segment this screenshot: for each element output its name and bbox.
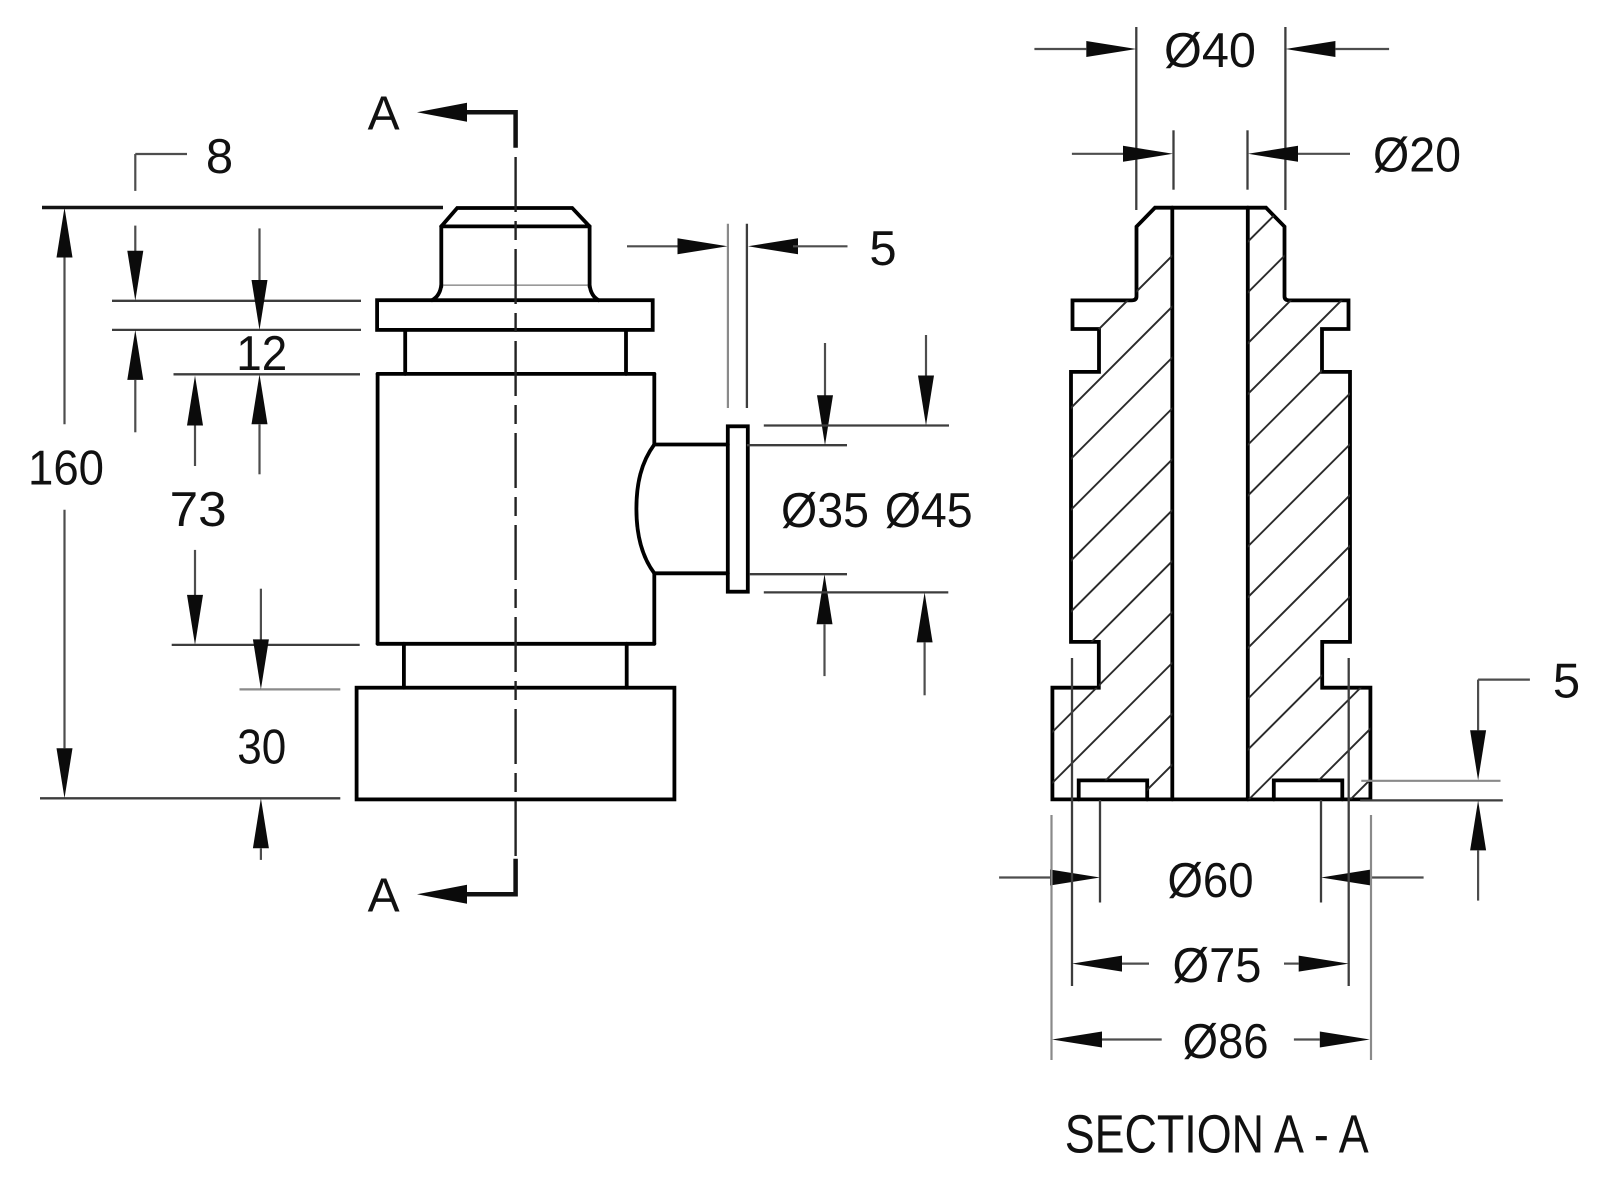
front view: main body: [378, 372, 655, 376]
section view bore (D20 hole) edges: [1170, 208, 1174, 800]
dimension 5 (port flange thickness): [727, 224, 729, 408]
svg-text:12: 12: [236, 327, 287, 381]
extension line: part top (160 datum): [42, 206, 443, 209]
svg-text:Ø45: Ø45: [885, 484, 973, 538]
svg-text:8: 8: [206, 130, 233, 184]
dimension 8: [135, 153, 187, 155]
dimension 73: [187, 376, 203, 426]
front view: lower neck: [402, 644, 406, 688]
dimension 160: [57, 208, 73, 258]
dimension 30: [260, 589, 262, 640]
front view: port end flange disc (D45 x 5): [728, 426, 748, 591]
svg-text:Ø86: Ø86: [1183, 1015, 1269, 1069]
svg-text:5: 5: [1553, 654, 1580, 708]
dimension D45: [764, 424, 949, 426]
dimension D35: [747, 444, 847, 446]
extension line: base bottom (160 datum): [40, 797, 340, 799]
front view: neck ring (D60): [403, 330, 407, 374]
front view: side port tube (D35): [654, 443, 728, 447]
svg-text:Ø75: Ø75: [1173, 939, 1262, 993]
extension line: body top: [174, 373, 361, 375]
section view outer profile: [1052, 208, 1370, 800]
base bottom recess groove right: [1274, 780, 1343, 799]
extension line: body bottom: [172, 644, 360, 646]
dimension D60: [1099, 800, 1101, 903]
svg-text:Ø40: Ø40: [1164, 24, 1256, 78]
svg-text:5: 5: [869, 222, 896, 276]
svg-text:73: 73: [170, 483, 227, 537]
boss fillet tangent edge: [441, 284, 589, 286]
hatching right wall: [675, 190, 1600, 815]
dimension 12: [258, 228, 260, 281]
svg-text:Ø60: Ø60: [1168, 854, 1254, 908]
front view: top boss (hex head silhouette): [441, 208, 589, 226]
svg-text:160: 160: [28, 442, 104, 496]
front view: base (D86): [357, 688, 675, 800]
dimension D86: [1050, 815, 1052, 1060]
dimension D40: [1135, 27, 1137, 210]
svg-text:A: A: [368, 88, 400, 141]
boss flare fillets: [432, 285, 441, 300]
hatching left wall: [613, 190, 1600, 815]
front view: top flange (D75): [377, 300, 653, 330]
svg-text:30: 30: [237, 720, 286, 774]
section cut arrow bottom: [467, 859, 516, 895]
port intersection arc: [636, 445, 654, 574]
svg-text:SECTION A - A: SECTION A - A: [1065, 1104, 1369, 1164]
base bottom recess groove left: [1079, 780, 1148, 799]
extension line: base top (gray): [240, 688, 341, 690]
extension line: flange top: [112, 300, 361, 302]
extension line: flange bottom: [112, 329, 361, 331]
centerline A-A (front view): [514, 149, 516, 859]
dimension D75: [1071, 658, 1073, 986]
svg-text:Ø20: Ø20: [1373, 129, 1461, 183]
svg-text:Ø35: Ø35: [781, 484, 869, 538]
svg-text:A: A: [368, 870, 400, 923]
section cut arrow top: [467, 112, 516, 148]
dimension D20: [1172, 130, 1174, 189]
dimension 5 (recess depth): [1361, 780, 1500, 782]
